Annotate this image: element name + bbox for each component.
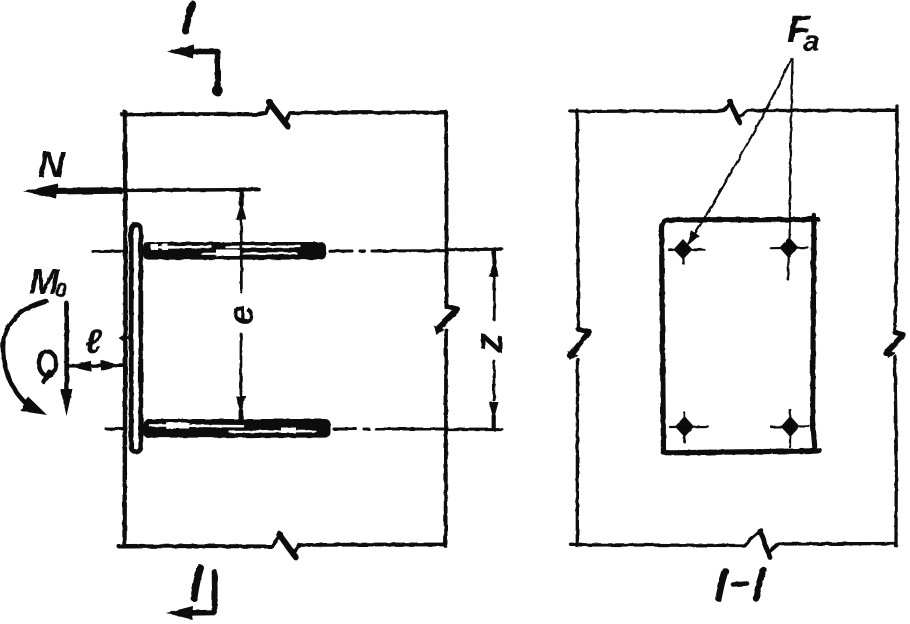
anchor top-right (diamond + crosshair) (771, 237, 808, 279)
anchor bottom-right (diamond + crosshair) (771, 410, 809, 447)
svg-text:z: z (467, 333, 511, 354)
centerline of top rod (dash-dot) (93, 250, 126, 253)
moment M0 curved arrow (3, 301, 46, 411)
section outline top edge with break (571, 101, 732, 112)
leader from Fa to top-left anchor (with arrowhead) (694, 59, 792, 236)
leader from Fa to top-right anchor (vertical) (790, 59, 793, 247)
anchor bottom-left (diamond + crosshair) (670, 413, 708, 442)
dimension z line with arrows (492, 251, 496, 263)
section mark 1 top: digit (186, 4, 193, 31)
svg-text:e: e (220, 305, 261, 325)
svg-text:0: 0 (55, 279, 67, 302)
force Q label (narrow hand style) (39, 352, 56, 382)
svg-text:a: a (803, 25, 820, 58)
dimension z extension tick bottom (447, 428, 502, 431)
svg-text:N: N (38, 144, 66, 185)
dimension line l with arrows (68, 364, 122, 368)
force Q arrow (down) (64, 303, 69, 396)
section mark 1 bottom: digit (194, 568, 201, 598)
dimension z extension tick top (447, 248, 502, 252)
centerline of bottom rod (dash-dot) (106, 427, 126, 430)
anchor rod bottom (143, 419, 331, 438)
section outline left edge with break (577, 110, 579, 330)
svg-text:ℓ: ℓ (85, 323, 103, 361)
anchor top-left (diamond + crosshair) (669, 239, 704, 264)
plate (section) rectangle (661, 218, 814, 452)
view title 1-1 (719, 571, 726, 599)
section mark 1 top: arrow (186, 52, 218, 93)
concrete block outline bottom edge with break mark (119, 534, 281, 547)
force N arrow (52, 187, 120, 194)
ink blot on concrete edge (119, 334, 131, 343)
arrowhead down of e (236, 396, 247, 414)
anchor rod top (143, 242, 326, 260)
embedded plate (vertical bar) (131, 225, 141, 453)
concrete block outline top edge with break mark (122, 101, 271, 115)
section outline bottom edge with break (571, 530, 762, 546)
concrete block outline right edge with break mark (444, 112, 448, 307)
arrowhead up of e (236, 202, 247, 220)
section outline right edge with break (895, 106, 897, 332)
dimension line e (239, 191, 244, 205)
reference line at N level (120, 188, 259, 192)
concrete block outline left edge (125, 112, 126, 546)
section mark 1 bottom: arrow (186, 572, 215, 613)
